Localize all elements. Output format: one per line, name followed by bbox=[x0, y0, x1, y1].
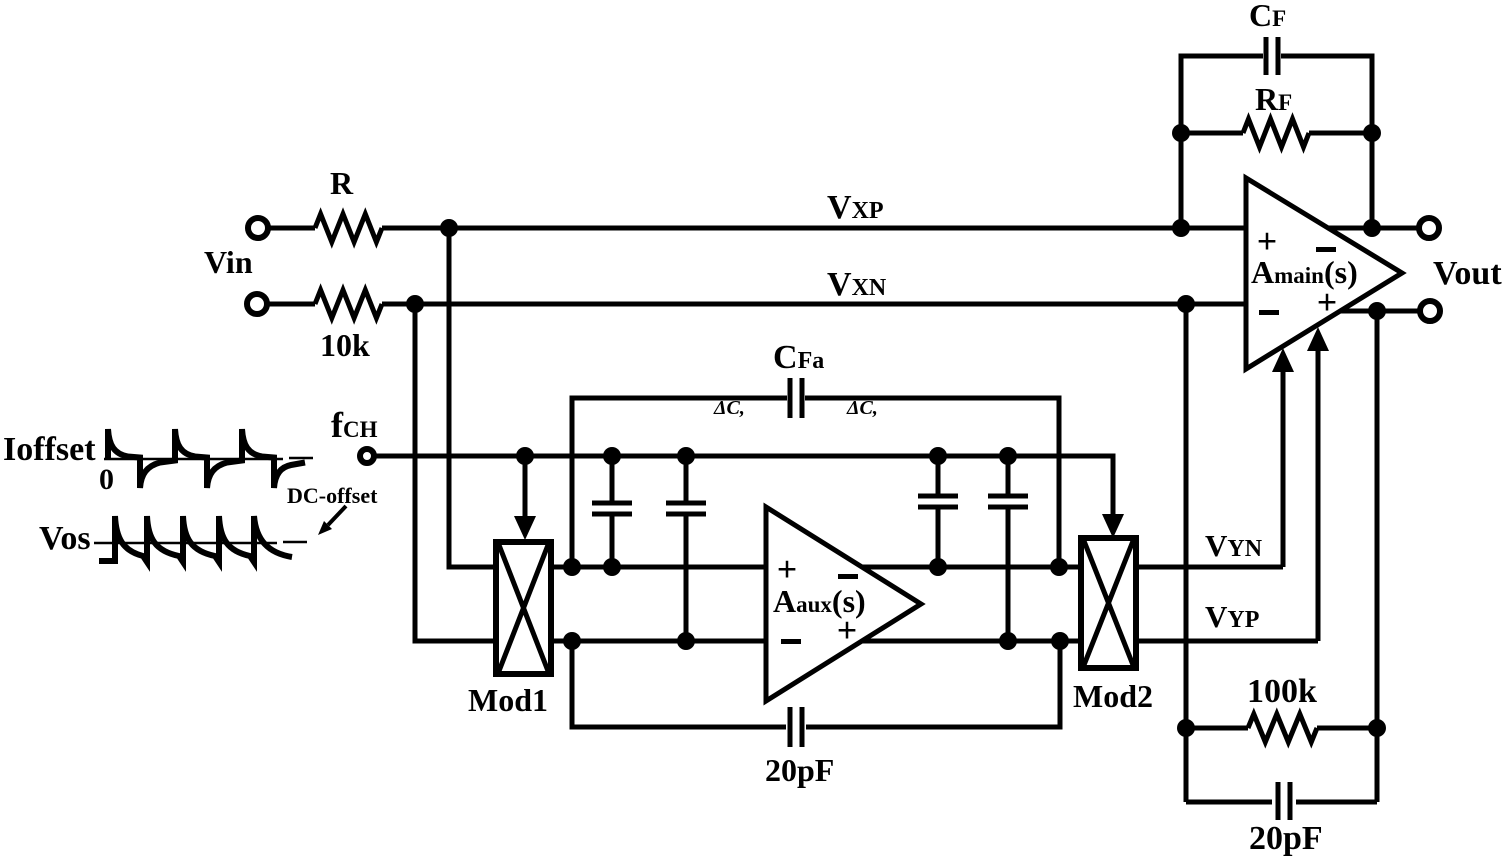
svg-text:20pF: 20pF bbox=[765, 752, 834, 788]
svg-text:0: 0 bbox=[99, 463, 114, 496]
wire bottom row Mod1 output bbox=[551, 639, 1081, 644]
svg-text:Mod1: Mod1 bbox=[468, 682, 548, 718]
capacitor CFa feedback loop wires bbox=[572, 398, 1059, 567]
capacitor 20pF aux loop wires bbox=[572, 641, 1060, 727]
input terminal Vin plus bbox=[248, 218, 268, 238]
wire fCH chopping clock line bbox=[374, 456, 1113, 516]
capacitor C1 plates bbox=[592, 503, 632, 514]
arrowhead into Mod2 bbox=[1102, 514, 1124, 538]
modulator Mod1 box bbox=[496, 542, 551, 674]
op-amp Aaux triangle bbox=[766, 507, 921, 701]
wire VYN vertical with arrow into Amain bbox=[1281, 372, 1286, 567]
Ioffset baseline bbox=[104, 458, 313, 459]
capacitor C3 plates bbox=[918, 496, 958, 507]
capacitor 20pF output wires bbox=[1186, 800, 1377, 805]
svg-text:Vos: Vos bbox=[39, 520, 91, 557]
capacitor C4 stem bbox=[1006, 456, 1011, 641]
node CFa left bbox=[563, 558, 581, 576]
svg-text:Vout: Vout bbox=[1433, 255, 1502, 292]
node VXN-10k junction bbox=[406, 295, 424, 313]
wire Amain bottom output bbox=[1310, 309, 1420, 314]
node output bottom feedback bbox=[1368, 302, 1386, 320]
wire VXN main run bbox=[382, 302, 1246, 307]
modulator Mod2 cross bbox=[1084, 541, 1133, 665]
node C1 bottom bbox=[603, 558, 621, 576]
capacitor CFa plates bbox=[790, 378, 802, 418]
node RF left bbox=[1172, 124, 1190, 142]
input terminal fCH bbox=[360, 449, 374, 463]
output terminal Vout plus bbox=[1419, 218, 1439, 238]
node fCH C3 tap bbox=[929, 447, 947, 465]
wire VYP vertical with arrow into Amain bbox=[1316, 351, 1321, 641]
svg-text:ΔC,: ΔC, bbox=[713, 397, 745, 419]
op-amp Amain minus input mark bbox=[1259, 310, 1279, 315]
arrowhead VYN into Amain bbox=[1272, 348, 1294, 372]
capacitor CF top feedback wires bbox=[1181, 56, 1372, 228]
capacitor 20pF aux plates bbox=[790, 707, 802, 747]
DC-offset arrowhead bbox=[318, 521, 332, 535]
capacitor C1 stem bbox=[610, 456, 615, 567]
arrowhead VYP into Amain bbox=[1307, 327, 1329, 351]
DC-offset arrow line bbox=[328, 506, 346, 525]
resistor RF leads bbox=[1181, 131, 1243, 136]
resistor R bbox=[315, 214, 382, 242]
op-amp Amain triangle bbox=[1246, 178, 1402, 369]
wire vertical from VXN node to Mod1 bottom input bbox=[415, 304, 496, 641]
node C3 bottom bbox=[929, 558, 947, 576]
svg-text:Mod2: Mod2 bbox=[1073, 678, 1153, 714]
op-amp Amain minus output mark bbox=[1316, 247, 1336, 252]
wire top row Mod1 input bbox=[551, 565, 1081, 570]
svg-text:R: R bbox=[330, 165, 354, 201]
arrow into Mod1 clock bbox=[523, 456, 528, 518]
wire bottom row Mod2 output VYP bbox=[1136, 639, 1318, 644]
op-amp Aaux minus output mark bbox=[838, 574, 858, 579]
node fCH C1 tap bbox=[603, 447, 621, 465]
capacitor 20pF output plates bbox=[1278, 782, 1290, 820]
wire VXN second input line bbox=[267, 302, 315, 307]
op-amp Aaux minus input mark bbox=[781, 639, 801, 644]
svg-text:20pF: 20pF bbox=[1249, 820, 1323, 857]
capacitor CF plates bbox=[1266, 37, 1278, 75]
node RF right bbox=[1363, 124, 1381, 142]
node VXP-R junction bbox=[440, 219, 458, 237]
resistor 100k leads bbox=[1186, 726, 1248, 731]
input terminal Vin minus bbox=[247, 294, 267, 314]
resistor RF right lead bbox=[1309, 131, 1372, 136]
wire Amain top output bbox=[1300, 226, 1419, 231]
svg-text:+: + bbox=[1317, 282, 1338, 322]
node 100k left bbox=[1177, 719, 1195, 737]
node 20pF-aux left bbox=[563, 632, 581, 650]
resistor 100k right lead bbox=[1317, 726, 1377, 731]
capacitor C2 stem bbox=[684, 456, 689, 641]
node 20pF-aux right bbox=[1051, 632, 1069, 650]
Vos baseline bbox=[94, 542, 307, 543]
wire vertical from VXP node to Mod1 top input bbox=[449, 228, 496, 567]
node fCH Mod1 tap bbox=[516, 447, 534, 465]
node 100k right bbox=[1368, 719, 1386, 737]
node output top feedback bbox=[1363, 219, 1381, 237]
capacitor C2 plates bbox=[666, 503, 706, 514]
node C4 bottom bbox=[999, 632, 1017, 650]
svg-text:10k: 10k bbox=[320, 327, 370, 363]
wire bottom feedback right vertical bbox=[1375, 311, 1380, 802]
wire VXP main run bbox=[382, 226, 1246, 231]
wire VXP top input line bbox=[268, 226, 315, 231]
arrowhead into Mod1 bbox=[514, 516, 536, 540]
svg-text:ΔC,: ΔC, bbox=[846, 397, 878, 419]
resistor RF zigzag bbox=[1243, 119, 1309, 147]
modulator Mod2 box bbox=[1081, 538, 1136, 668]
node CFa right bbox=[1050, 558, 1068, 576]
output terminal Vout minus bbox=[1420, 301, 1440, 321]
resistor 100k zigzag bbox=[1248, 714, 1317, 742]
node VXP feedback bbox=[1172, 219, 1190, 237]
Vos waveform bbox=[99, 516, 292, 562]
node fCH C2 tap bbox=[677, 447, 695, 465]
node C2 bottom bbox=[677, 632, 695, 650]
capacitor C3 stem bbox=[936, 456, 941, 567]
svg-text:DC-offset: DC-offset bbox=[287, 483, 378, 508]
modulator Mod1 cross bbox=[499, 545, 548, 671]
svg-text:Ioffset: Ioffset bbox=[3, 431, 96, 468]
svg-text:100k: 100k bbox=[1247, 673, 1317, 710]
svg-text:+: + bbox=[837, 610, 858, 650]
Ioffset waveform bbox=[108, 429, 305, 488]
capacitor C4 plates bbox=[988, 496, 1028, 507]
resistor 10k bbox=[315, 290, 382, 318]
node VXN feedback bbox=[1177, 295, 1195, 313]
svg-text:Vin: Vin bbox=[204, 244, 253, 280]
wire top row Mod2 output VYN bbox=[1136, 565, 1283, 570]
wire bottom feedback left vertical bbox=[1184, 304, 1189, 802]
node fCH C4 tap bbox=[999, 447, 1017, 465]
